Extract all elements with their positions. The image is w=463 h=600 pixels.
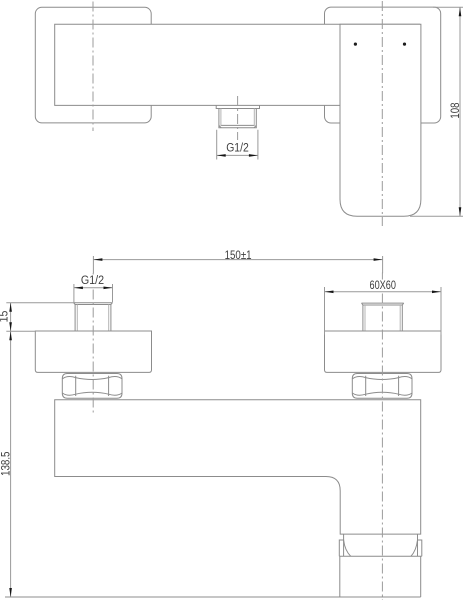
svg-text:150±1: 150±1 — [225, 250, 252, 262]
top view: thread relief line — [221, 124, 255, 126]
dimension 60X60: extension lines — [325, 287, 442, 335]
top view: right wall escutcheon (60x60 rounded square) — [325, 7, 441, 123]
front view: aerator neck — [344, 534, 418, 540]
top view: mixer body (horizontal bar) — [55, 24, 420, 105]
center line: left connector axis (front view) — [92, 273, 94, 416]
front view: left nut facet lines — [76, 376, 109, 396]
front view: right supply stub body — [363, 305, 402, 331]
front view: left escutcheon block — [35, 331, 151, 372]
front view: wall / bottom reference line — [5, 596, 421, 598]
dimension 138.5: dimension line — [10, 331, 12, 597]
center line: left escutcheon axis (top view) — [92, 2, 94, 132]
dimension 108: dimension line — [459, 7, 461, 216]
front view: right supply stub top second line — [362, 303, 404, 305]
top view: thread inner lines — [221, 109, 254, 126]
front view: left hex nut outline — [62, 374, 122, 399]
dimension 150±1: dimension line — [93, 259, 382, 261]
arrowheads: dimension 108 — [459, 7, 462, 16]
top view: handle screw dot left — [354, 43, 357, 46]
svg-text:15: 15 — [0, 311, 10, 323]
front view: left nut chamfer arcs — [62, 377, 122, 396]
svg-text:138.5: 138.5 — [0, 452, 12, 477]
front view: right supply stub chamfer top line — [362, 302, 404, 304]
arrowheads: dimension 150±1 — [93, 258, 102, 261]
dimension G1/2 (top view): extension lines — [217, 130, 258, 160]
dimension 108: extension lines — [410, 7, 463, 216]
dimension G1/2 (top view): dimension line — [217, 154, 258, 156]
svg-text:60X60: 60X60 — [370, 280, 396, 292]
dimension G1/2 (front view): extension lines — [74, 284, 113, 303]
top view: handle lever (rounded-bottom rectangle) — [340, 24, 421, 216]
center line: right connector / spout axis (front view) — [381, 273, 383, 600]
front view: left supply stub chamfer top line — [74, 302, 113, 304]
top view: thread chamfer diagonals — [219, 125, 256, 127]
top view: handle screw dot right — [403, 43, 406, 46]
arrowheads: dimension G1/2 top view — [217, 154, 226, 157]
top view: outlet fitting threaded stub — [219, 109, 256, 128]
front view: spout end block sides — [340, 556, 421, 597]
arrowheads: dimension G1/2 front view — [74, 287, 83, 290]
svg-text:G1/2: G1/2 — [81, 275, 104, 287]
arrowheads: dimension 60X60 — [325, 291, 334, 294]
arrowheads: dimension 138.5 — [9, 331, 12, 340]
front view: right nut facet lines — [366, 376, 399, 396]
front view: right hex nut outline — [352, 374, 412, 399]
dimension 60X60: dimension line — [325, 291, 442, 293]
front view: left stub thread inner lines — [77, 305, 108, 332]
center line: outlet fitting axis (top view) — [237, 96, 239, 140]
dimension G1/2 (front view): dimension line — [74, 287, 113, 289]
front view: aerator cone curves — [344, 540, 418, 556]
front view: left supply stub body — [75, 305, 111, 332]
front view: mixer body with spout (L-shaped outline) — [55, 400, 421, 534]
svg-text:G1/2: G1/2 — [226, 142, 249, 154]
svg-text:108: 108 — [450, 103, 462, 119]
dimension 150±1: extension lines — [93, 256, 382, 273]
front view: right nut chamfer arcs — [352, 377, 412, 396]
front view: right stub thread inner lines — [365, 305, 400, 331]
center line: handle axis (top view) — [381, 1, 383, 226]
arrowheads: dimension 15 — [9, 303, 12, 312]
top view: outlet fitting flange — [216, 105, 259, 108]
top view: left wall escutcheon (60x60 rounded square) — [35, 7, 151, 123]
front view: right escutcheon block — [325, 331, 442, 372]
front view: aerator retainer ring — [339, 540, 422, 556]
dimension 15: extension lines — [6, 303, 74, 332]
dimension 15: dimension line — [10, 303, 12, 332]
front view: left supply stub top second line — [74, 303, 113, 305]
